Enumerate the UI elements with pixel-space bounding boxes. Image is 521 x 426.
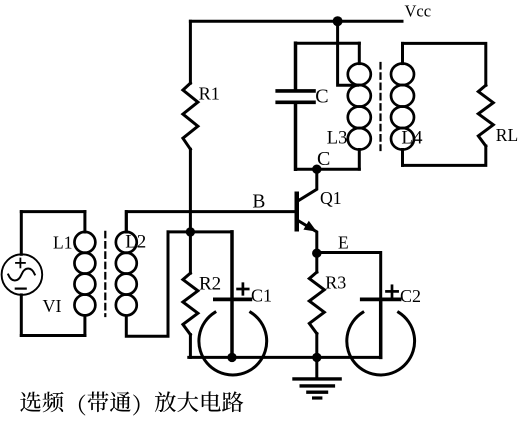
svg-text:E: E [338,233,349,253]
node: bias junction dot [186,227,195,236]
wire: source top to L1 top [21,210,85,213]
caption character 路 [222,391,243,412]
wire: Vcc tap down to L3 winding tap [338,21,358,85]
resistor R3 [309,253,324,357]
svg-text:RL: RL [496,125,518,145]
wire: collector rail (node C) [296,168,360,171]
caption character 大 [177,391,198,412]
capacitor C2 [347,299,415,375]
ground [294,357,340,398]
caption character 电 [202,391,221,411]
svg-text:C2: C2 [400,286,421,306]
svg-text:R1: R1 [199,84,220,104]
svg-text:L1: L1 [53,232,72,252]
resistor RL [478,85,493,146]
caption character 放 [155,391,176,412]
wire: L2 top to base of Q1 [126,212,294,232]
wire: emitter node E to C2 [317,253,381,298]
caption character 通 [110,392,131,412]
capacitor C [277,43,314,169]
caption character 选 [20,392,41,412]
caption character （ [79,394,85,415]
inductor L2 [116,212,137,316]
wire: RL bottom to L4 bottom [403,146,486,165]
node: C1-ground junction dot [227,353,236,362]
inductor L3 [348,43,371,169]
caption: 选频（带通）放大电路 [20,391,243,415]
svg-text:L4: L4 [401,127,423,148]
caption character 频 [42,392,63,413]
wire: ground rail [189,356,381,359]
transformer coupling dashes L3-L4 [379,63,381,150]
inductor L4 [391,43,414,165]
C1 polarity + [238,284,249,295]
inductor L1 [74,212,95,336]
svg-text:L2: L2 [125,232,146,253]
svg-text:Vcc: Vcc [405,1,432,20]
svg-text:C: C [315,85,328,107]
svg-text:R2: R2 [199,273,221,294]
node: Vcc junction dot [333,16,343,26]
transistor Q1 base bar [295,192,300,232]
source VI [2,212,43,336]
svg-text:L3: L3 [327,129,348,149]
capacitor C1 [199,232,267,375]
svg-text:VI: VI [43,296,62,316]
caption character ） [133,394,139,415]
svg-text:R3: R3 [325,273,346,293]
transistor Q1 [297,169,317,253]
svg-text:Q1: Q1 [320,188,342,208]
caption character 带 [88,391,109,412]
wire: L4 top to RL top [403,43,486,85]
node: ground junction dot [312,353,321,362]
resistor R1 [183,21,198,232]
wire: L1 bottom to source bottom [21,334,85,337]
node: collector junction dot [312,165,321,174]
wire: bias rail (R1/R2/C1/L2-return node) [168,230,232,233]
wire: L2 bottom return [126,232,168,336]
svg-text:B: B [252,191,265,212]
transistor Q1 emitter arrowhead [303,221,316,232]
node: emitter junction dot [312,249,321,258]
resistor R2 [183,232,198,358]
wire: tank top rail (C top to L3 top) [296,42,360,45]
C2 polarity + [387,286,398,297]
wire: Vcc top rail [190,20,402,23]
transformer coupling dashes L1-L2 [104,232,106,316]
svg-text:C: C [317,148,330,170]
svg-text:C1: C1 [251,286,272,306]
